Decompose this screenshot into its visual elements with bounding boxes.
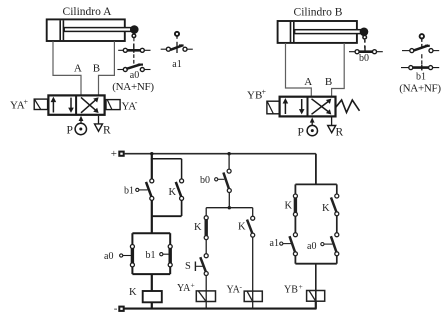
svg-text:A: A	[74, 63, 82, 75]
svg-text:Cilindro B: Cilindro B	[294, 7, 343, 19]
svg-text:-: -	[240, 282, 243, 291]
svg-text:+: +	[24, 98, 29, 107]
svg-text:B: B	[325, 76, 332, 88]
svg-text:a1: a1	[270, 238, 279, 249]
svg-text:+: +	[299, 282, 303, 291]
svg-text:(NA+NF): (NA+NF)	[399, 83, 441, 95]
svg-text:K: K	[194, 222, 202, 233]
svg-text:YA: YA	[177, 283, 191, 294]
svg-text:b1: b1	[416, 72, 426, 83]
svg-text:a0: a0	[307, 241, 316, 252]
svg-text:A: A	[304, 76, 312, 88]
svg-text:R: R	[336, 127, 344, 139]
svg-text:Cilindro A: Cilindro A	[63, 6, 113, 18]
svg-text:K: K	[238, 222, 246, 233]
svg-text:b1: b1	[146, 250, 156, 261]
svg-text:+: +	[111, 148, 117, 160]
svg-text:a1: a1	[172, 59, 181, 70]
svg-text:-: -	[114, 303, 118, 315]
svg-text:+: +	[191, 281, 195, 290]
svg-text:b0: b0	[359, 53, 369, 64]
svg-text:(NA+NF): (NA+NF)	[112, 81, 154, 93]
svg-text:K: K	[129, 287, 137, 298]
svg-text:B: B	[93, 63, 100, 75]
svg-text:b1: b1	[124, 186, 134, 197]
svg-text:YB: YB	[247, 90, 262, 102]
svg-text:YA: YA	[227, 285, 241, 296]
svg-text:a0: a0	[130, 70, 139, 81]
svg-text:K: K	[169, 187, 177, 198]
svg-text:K: K	[322, 203, 330, 214]
svg-text:K: K	[285, 201, 293, 212]
svg-text:-: -	[135, 98, 138, 107]
svg-text:P: P	[67, 125, 73, 137]
svg-text:P: P	[298, 127, 304, 139]
svg-text:S: S	[185, 261, 191, 272]
svg-text:YB: YB	[284, 285, 298, 296]
svg-text:b0: b0	[200, 175, 210, 186]
svg-text:+: +	[262, 88, 267, 97]
svg-text:a0: a0	[104, 251, 113, 262]
svg-text:R: R	[103, 125, 111, 137]
